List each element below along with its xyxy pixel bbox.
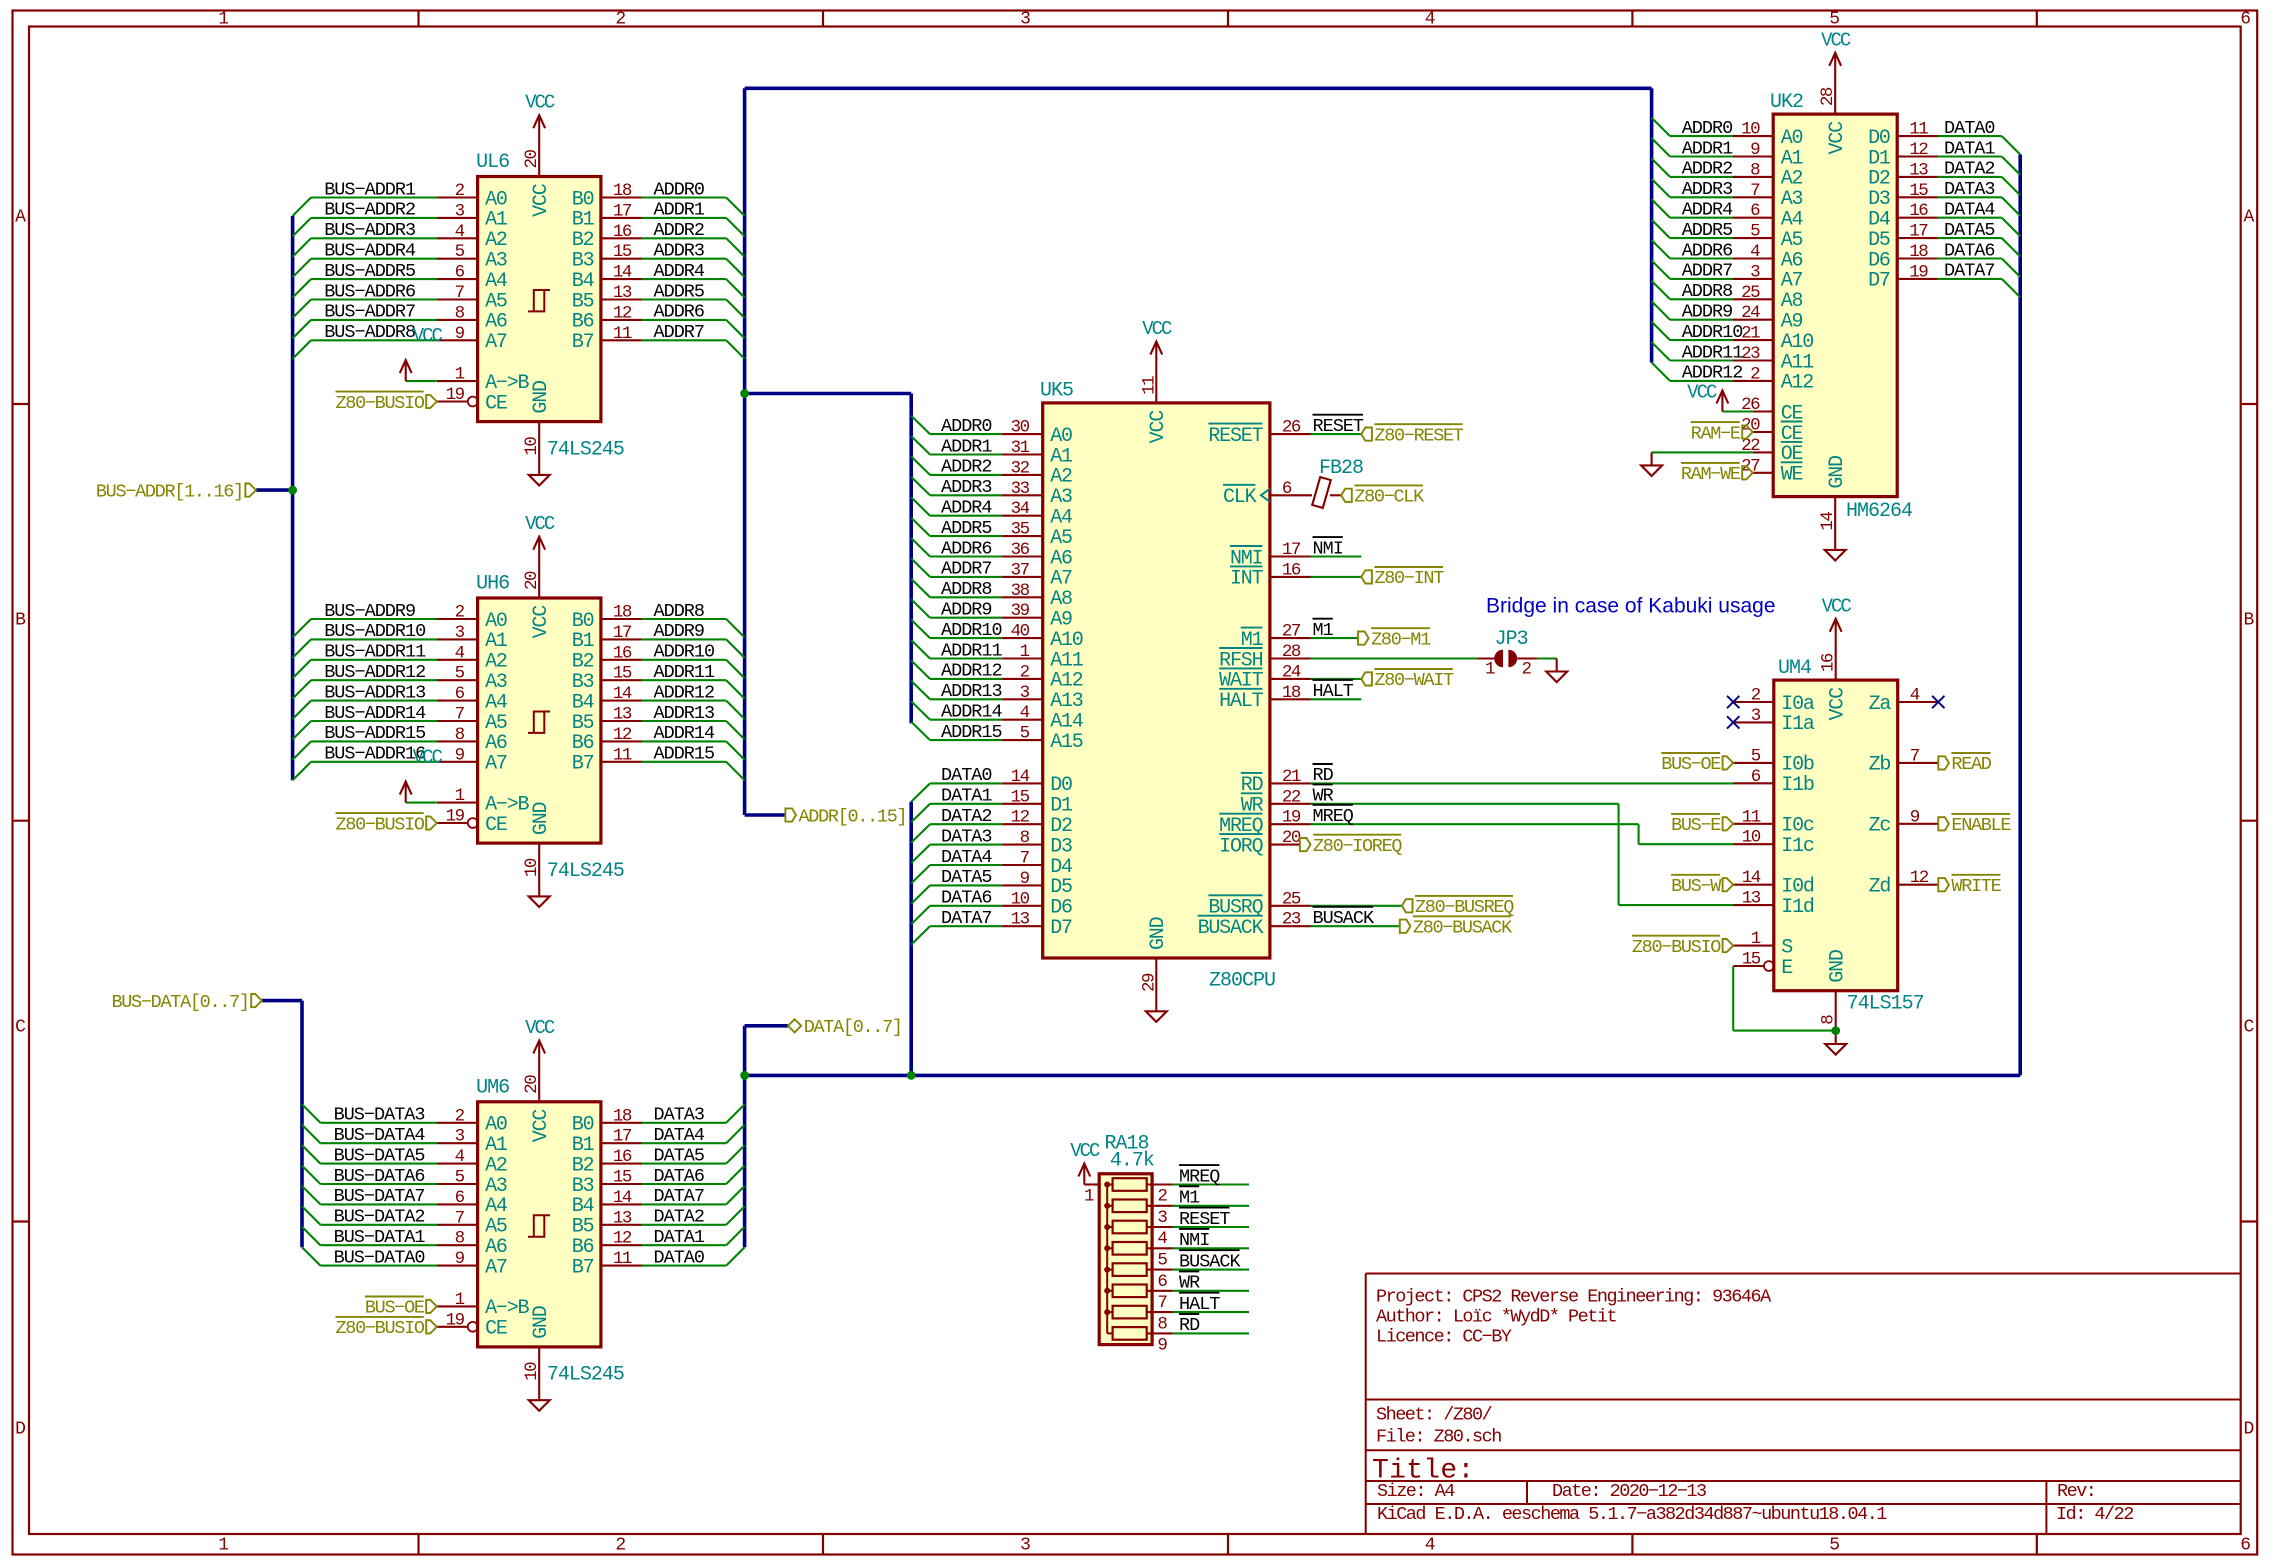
svg-text:7: 7 <box>455 705 465 725</box>
wire DATA7 from UK2 <box>1938 278 2002 280</box>
svg-text:28: 28 <box>1818 87 1838 106</box>
RA18 pin 7 wire WR <box>1147 1290 1173 1292</box>
svg-text:Bridge in case of Kabuki usage: Bridge in case of Kabuki usage <box>1486 595 1776 618</box>
svg-text:File: Z80.sch: File: Z80.sch <box>1376 1427 1501 1448</box>
svg-text:DATA4: DATA4 <box>941 847 992 868</box>
svg-text:ADDR5: ADDR5 <box>654 281 705 302</box>
UK5 pin 17 NMI <box>1270 555 1311 557</box>
svg-text:RESET: RESET <box>1208 425 1263 448</box>
UM6 pin 6 A4 <box>437 1203 478 1205</box>
wire BUS-DATA1 <box>320 1244 437 1246</box>
bus entry DATA[0..7] <box>745 1024 788 1028</box>
svg-text:12: 12 <box>613 1229 632 1249</box>
svg-text:12: 12 <box>1909 140 1928 160</box>
svg-text:14: 14 <box>613 684 632 704</box>
UL6 pin 14 B4 <box>601 278 642 280</box>
svg-text:A7: A7 <box>485 753 507 776</box>
wire NMI <box>1311 555 1362 557</box>
svg-text:16: 16 <box>613 222 632 242</box>
svg-text:5: 5 <box>1750 222 1760 242</box>
svg-text:ADDR[0..15]: ADDR[0..15] <box>799 806 907 827</box>
svg-text:ADDR7: ADDR7 <box>1682 261 1733 282</box>
svg-text:ENABLE: ENABLE <box>1951 815 2011 836</box>
svg-text:CLK: CLK <box>1223 486 1257 509</box>
wire BUS-ADDR2 <box>311 217 437 219</box>
svg-text:BUS−ADDR4: BUS−ADDR4 <box>324 241 416 262</box>
svg-text:GND: GND <box>1147 917 1170 950</box>
svg-text:ADDR3: ADDR3 <box>654 241 705 262</box>
svg-text:UM6: UM6 <box>476 1076 509 1099</box>
UM6 pin 15 B3 <box>601 1183 642 1185</box>
UK5 pin 40 A10 <box>1002 637 1043 639</box>
hier label BUS-OE at UM4 I0b <box>1723 756 1734 769</box>
hier label Z80-CLK <box>1341 489 1352 502</box>
RA18 resistor R2 M1 <box>1113 1200 1147 1213</box>
UK5 pin 38 A8 <box>1002 596 1043 598</box>
UL6 pin 18 B0 <box>601 196 642 198</box>
wire ADDR0 to UK2 <box>1670 135 1733 137</box>
svg-text:Z80CPU: Z80CPU <box>1209 970 1275 993</box>
wire DATA5 to UK5 <box>930 884 1002 886</box>
svg-text:21: 21 <box>1282 767 1301 787</box>
UH6 pin 19 CE <box>437 822 468 824</box>
wire RESET / hier Z80-RESET <box>1311 433 1362 435</box>
wire BUS-ADDR16 <box>311 761 437 763</box>
hier label WRITE at UM4 Zd <box>1938 878 1949 891</box>
UL6 pin 2 A0 <box>437 196 478 198</box>
svg-text:DATA7: DATA7 <box>654 1186 705 1207</box>
svg-text:D: D <box>15 1419 26 1439</box>
wire BUS-ADDR3 <box>311 237 437 239</box>
svg-text:29: 29 <box>1139 973 1159 992</box>
svg-text:13: 13 <box>1742 889 1761 909</box>
svg-text:ADDR1: ADDR1 <box>941 436 992 457</box>
UH6 pin 11 B7 <box>601 761 642 763</box>
svg-text:BUS−DATA6: BUS−DATA6 <box>334 1166 425 1187</box>
wire BUS-ADDR15 <box>311 740 437 742</box>
svg-text:DATA1: DATA1 <box>654 1227 705 1248</box>
hier label Z80-BUSIO at UM4 S <box>1723 939 1734 952</box>
UM4 pin 3 I1a <box>1733 721 1774 723</box>
svg-text:1: 1 <box>1485 660 1495 680</box>
svg-text:74LS157: 74LS157 <box>1847 993 1924 1016</box>
UK2 pin 8 A2 <box>1733 176 1774 178</box>
UK5 pin 16 INT <box>1270 576 1311 578</box>
UL6 pin 9 A7 <box>437 339 478 341</box>
svg-text:2: 2 <box>1751 686 1761 706</box>
svg-text:4: 4 <box>1020 703 1030 723</box>
svg-text:BUS−DATA1: BUS−DATA1 <box>334 1227 426 1248</box>
svg-text:ADDR10: ADDR10 <box>654 642 715 663</box>
junction on V1 at BUS-ADDR label <box>288 486 297 495</box>
wire ADDR2 to UK5 <box>930 474 1002 476</box>
svg-text:5: 5 <box>455 664 465 684</box>
UH6 pin 5 A3 <box>437 679 478 681</box>
UK5 pin 30 A0 <box>1002 433 1043 435</box>
svg-text:DATA0: DATA0 <box>1944 118 1995 139</box>
svg-text:3: 3 <box>1157 1208 1167 1228</box>
svg-text:ADDR4: ADDR4 <box>1682 200 1733 221</box>
svg-text:UH6: UH6 <box>476 573 509 596</box>
svg-text:ADDR1: ADDR1 <box>654 200 705 221</box>
svg-text:DATA0: DATA0 <box>654 1247 705 1268</box>
UK5 pin 36 A6 <box>1002 555 1043 557</box>
svg-text:WE: WE <box>1781 464 1803 487</box>
UK2 pin 4 A6 <box>1733 257 1774 259</box>
svg-text:23: 23 <box>1741 344 1760 364</box>
svg-text:DATA3: DATA3 <box>941 826 992 847</box>
svg-text:Z80−RESET: Z80−RESET <box>1374 425 1463 446</box>
wire BUS-ADDR9 <box>311 618 437 620</box>
UK2 pin 10 A0 <box>1733 135 1774 137</box>
UK2 pin 12 D1 <box>1897 155 1938 157</box>
wire ADDR4 to UK5 <box>930 515 1002 517</box>
wire BUS-DATA3 <box>320 1122 437 1124</box>
svg-text:14: 14 <box>613 1188 632 1208</box>
svg-text:2: 2 <box>455 1106 465 1126</box>
wire DATA0 to UK5 <box>930 782 1002 784</box>
svg-text:VCC: VCC <box>525 1017 555 1039</box>
svg-text:DATA1: DATA1 <box>1944 138 1995 159</box>
UK2 pin 25 A8 <box>1733 298 1774 300</box>
UK5 pin 39 A9 <box>1002 617 1043 619</box>
svg-text:VCC: VCC <box>1822 595 1852 617</box>
wire DATA6 from UK2 <box>1938 257 2002 259</box>
svg-text:BUS−ADDR11: BUS−ADDR11 <box>324 642 426 663</box>
UK2 pin 13 D2 <box>1897 176 1938 178</box>
svg-text:ADDR0: ADDR0 <box>1682 118 1733 139</box>
svg-text:16: 16 <box>613 1147 632 1167</box>
UK5 pin 25 BUSRQ <box>1270 905 1311 907</box>
svg-text:ADDR12: ADDR12 <box>941 661 1002 682</box>
svg-text:RESET: RESET <box>1179 1209 1230 1230</box>
svg-text:A7: A7 <box>485 331 507 354</box>
UM6 pin 18 B0 <box>601 1122 642 1124</box>
UM4 pin 15 E <box>1733 965 1764 967</box>
svg-text:Project: CPS2 Reverse Engineer: Project: CPS2 Reverse Engineering: 93646… <box>1376 1287 1772 1308</box>
svg-text:ADDR6: ADDR6 <box>941 538 992 559</box>
svg-text:ADDR13: ADDR13 <box>941 681 1002 702</box>
svg-text:Sheet: /Z80/: Sheet: /Z80/ <box>1376 1405 1493 1426</box>
UM6 pin 13 B5 <box>601 1224 642 1226</box>
svg-text:Z80−BUSIO: Z80−BUSIO <box>335 1318 424 1339</box>
wire BUS-DATA2 <box>320 1224 437 1226</box>
svg-text:5: 5 <box>1829 10 1840 30</box>
bus ADDR vertical V2 right of UL6/UH6 <box>743 88 747 815</box>
UK5 pin 8 D3 <box>1002 844 1043 846</box>
svg-text:VCC: VCC <box>530 1109 553 1143</box>
wire OE to GND <box>1652 451 1753 453</box>
wire ADDR15 to UK5 <box>930 739 1002 741</box>
svg-text:C: C <box>2243 1018 2254 1038</box>
svg-text:5: 5 <box>455 242 465 262</box>
UK2 pin 20 CE <box>1753 431 1773 433</box>
svg-text:DATA7: DATA7 <box>941 908 992 929</box>
svg-text:15: 15 <box>613 1168 632 1188</box>
svg-text:10: 10 <box>1742 828 1761 848</box>
svg-text:BUS−DATA2: BUS−DATA2 <box>334 1207 425 1228</box>
svg-text:NMI: NMI <box>1313 538 1343 559</box>
wire DATA5 from UK2 <box>1938 237 2002 239</box>
svg-text:DATA7: DATA7 <box>1944 261 1995 282</box>
wire RD to UM4 I1b <box>1311 782 1734 784</box>
UK5 pin 31 A1 <box>1002 453 1043 455</box>
svg-text:VCC: VCC <box>413 747 443 769</box>
UL6 pin 3 A1 <box>437 217 478 219</box>
svg-text:13: 13 <box>613 1208 632 1228</box>
svg-text:6: 6 <box>2240 1536 2251 1556</box>
svg-text:Rev:: Rev: <box>2057 1481 2105 1502</box>
wire ADDR10 to UK5 <box>930 637 1002 639</box>
svg-text:C: C <box>15 1018 26 1038</box>
junction V4/H2 <box>907 1071 916 1080</box>
svg-text:A7: A7 <box>485 1256 507 1279</box>
UM6 pin 5 A3 <box>437 1183 478 1185</box>
svg-text:Z80−BUSIO: Z80−BUSIO <box>335 814 424 835</box>
UK2 pin 2 A12 <box>1733 380 1774 382</box>
svg-text:1: 1 <box>1084 1187 1094 1207</box>
bus entry BUS-DATA[0..7] <box>262 999 302 1003</box>
svg-text:Author: Loïc *WydD* Petit: Author: Loïc *WydD* Petit <box>1376 1307 1616 1328</box>
svg-text:Z80−M1: Z80−M1 <box>1371 629 1431 650</box>
svg-text:ADDR1: ADDR1 <box>1682 138 1733 159</box>
svg-text:9: 9 <box>455 745 465 765</box>
svg-text:3: 3 <box>1020 1536 1031 1556</box>
junction V2/H3 <box>740 389 749 398</box>
svg-text:ADDR3: ADDR3 <box>1682 179 1733 200</box>
svg-text:BUS−ADDR9: BUS−ADDR9 <box>324 601 415 622</box>
svg-text:20: 20 <box>522 571 542 590</box>
UK5 pin 10 D6 <box>1002 905 1043 907</box>
wire ADDR3 <box>642 258 727 260</box>
wire ADDR5 to UK5 <box>930 535 1002 537</box>
svg-text:VCC: VCC <box>1070 1140 1100 1162</box>
svg-text:12: 12 <box>613 725 632 745</box>
wire BUS-ADDR1 <box>311 196 437 198</box>
svg-text:16: 16 <box>1819 653 1839 672</box>
svg-text:ADDR7: ADDR7 <box>654 322 705 343</box>
svg-text:7: 7 <box>1157 1293 1167 1313</box>
wire BUSACK / hier Z80-BUSACK <box>1311 925 1400 927</box>
UM6 pin 1 A->B <box>437 1305 478 1307</box>
wire BUS-ADDR12 <box>311 679 437 681</box>
svg-text:6: 6 <box>1157 1272 1167 1292</box>
svg-text:18: 18 <box>613 603 632 623</box>
svg-text:15: 15 <box>1742 950 1761 970</box>
UK5 pin 3 A13 <box>1002 698 1043 700</box>
svg-text:VCC: VCC <box>525 92 555 114</box>
svg-text:D: D <box>2243 1419 2254 1439</box>
svg-text:32: 32 <box>1011 458 1030 478</box>
svg-text:RD: RD <box>1313 765 1334 786</box>
svg-text:GND: GND <box>1827 950 1850 983</box>
UH6 pin 14 B4 <box>601 700 642 702</box>
svg-text:14: 14 <box>1742 868 1761 888</box>
wire ADDR2 <box>642 237 727 239</box>
UM4 pin 2 I0a <box>1733 701 1774 703</box>
svg-text:BUS−DATA4: BUS−DATA4 <box>334 1125 426 1146</box>
svg-text:CE: CE <box>485 1318 507 1341</box>
svg-text:ADDR4: ADDR4 <box>941 498 992 519</box>
wire ADDR9 to UK2 <box>1670 319 1733 321</box>
svg-text:8: 8 <box>455 303 465 323</box>
svg-text:ADDR6: ADDR6 <box>654 302 705 323</box>
svg-text:ADDR9: ADDR9 <box>654 621 705 642</box>
UK2 pin 21 A10 <box>1733 339 1774 341</box>
UK5 pin 13 D7 <box>1002 925 1043 927</box>
svg-text:20: 20 <box>522 149 542 168</box>
svg-text:4: 4 <box>1425 10 1436 30</box>
wire ADDR7 to UK5 <box>930 576 1002 578</box>
svg-text:BUS−ADDR8: BUS−ADDR8 <box>324 322 415 343</box>
UM6 pin 12 B6 <box>601 1244 642 1246</box>
svg-text:18: 18 <box>1282 683 1301 703</box>
wire INT / hier Z80-INT <box>1311 576 1362 578</box>
title block <box>1365 1274 1367 1535</box>
UK2 pin 17 D5 <box>1897 237 1938 239</box>
svg-text:BUS−DATA0: BUS−DATA0 <box>334 1247 425 1268</box>
hier label BUS-E at UM4 I0c <box>1723 817 1734 830</box>
svg-text:9: 9 <box>1910 807 1920 827</box>
svg-text:UK5: UK5 <box>1040 380 1073 403</box>
UK2 pin 3 A7 <box>1733 278 1774 280</box>
svg-text:3: 3 <box>1020 10 1031 30</box>
svg-text:24: 24 <box>1282 662 1301 682</box>
UM4 pin 4 Za <box>1898 701 1939 703</box>
svg-text:1: 1 <box>218 1536 229 1556</box>
svg-text:BUS−ADDR[1..16]: BUS−ADDR[1..16] <box>96 481 243 502</box>
hier label ENABLE at UM4 Zc <box>1938 817 1949 830</box>
UH6 pin 15 B3 <box>601 679 642 681</box>
svg-text:CE: CE <box>485 814 507 837</box>
svg-text:BUS−ADDR16: BUS−ADDR16 <box>324 744 425 765</box>
wire ADDR13 to UK5 <box>930 698 1002 700</box>
wire BUS-ADDR6 <box>311 298 437 300</box>
svg-text:6: 6 <box>1751 767 1761 787</box>
svg-text:ADDR5: ADDR5 <box>1682 220 1733 241</box>
svg-text:10: 10 <box>522 858 542 877</box>
UK2 pin 7 A3 <box>1733 196 1774 198</box>
UH6 pin 1 A->B <box>437 802 478 804</box>
wire ADDR5 <box>642 298 727 300</box>
hier label BUS-OE at UM6 pin1 <box>426 1300 437 1313</box>
wire DATA2 from UK2 <box>1938 176 2002 178</box>
svg-text:Zd: Zd <box>1869 876 1891 899</box>
bus V3 left of UK5 (ADDR) <box>909 394 913 724</box>
svg-text:MREQ: MREQ <box>1313 806 1354 827</box>
wire ADDR15 <box>642 761 727 763</box>
bus V6 left of UK2 <box>1650 88 1654 362</box>
UK5 pin 14 D0 <box>1002 782 1043 784</box>
wire BUS-DATA4 <box>320 1142 437 1144</box>
IC UM4 74LS157 body <box>1774 680 1898 991</box>
svg-text:BUS−ADDR14: BUS−ADDR14 <box>324 703 426 724</box>
UK5 pin 26 RESET <box>1270 433 1311 435</box>
svg-text:3: 3 <box>455 623 465 643</box>
svg-text:10: 10 <box>522 1362 542 1381</box>
svg-text:DATA1: DATA1 <box>941 786 992 807</box>
wire BUS-DATA6 <box>320 1183 437 1185</box>
svg-text:GND: GND <box>530 1306 553 1339</box>
svg-text:17: 17 <box>613 201 632 221</box>
svg-text:4: 4 <box>455 643 465 663</box>
svg-text:HALT: HALT <box>1179 1294 1220 1315</box>
svg-text:A15: A15 <box>1050 731 1083 754</box>
wire DATA3 to UK5 <box>930 844 1002 846</box>
wire BUS-ADDR10 <box>311 638 437 640</box>
svg-text:7: 7 <box>455 283 465 303</box>
svg-text:WR: WR <box>1179 1273 1200 1294</box>
RA18 resistor R6 WR <box>1113 1285 1147 1298</box>
svg-text:25: 25 <box>1282 889 1301 909</box>
UK5 pin 7 D4 <box>1002 864 1043 866</box>
svg-text:DATA6: DATA6 <box>654 1166 705 1187</box>
svg-text:ADDR10: ADDR10 <box>941 620 1002 641</box>
resistor array RA18 4.7k body <box>1099 1174 1152 1345</box>
RA18 resistor R5 BUSACK <box>1113 1263 1147 1276</box>
svg-text:15: 15 <box>1011 787 1030 807</box>
wire BUS-ADDR7 <box>311 319 437 321</box>
svg-text:BUS−ADDR5: BUS−ADDR5 <box>324 261 415 282</box>
svg-text:8: 8 <box>1750 160 1760 180</box>
wire BUS-DATA0 <box>320 1265 437 1267</box>
UK2 pin 5 A5 <box>1733 237 1774 239</box>
UH6 pin 8 A6 <box>437 740 478 742</box>
UM6 pin 14 B4 <box>601 1203 642 1205</box>
svg-text:1: 1 <box>455 365 465 385</box>
svg-text:13: 13 <box>613 283 632 303</box>
wire BUS-ADDR13 <box>311 700 437 702</box>
no-connect Za <box>1932 696 1944 708</box>
svg-text:B7: B7 <box>572 331 594 354</box>
hier label Z80-BUSIO at UH6 CE <box>426 816 437 829</box>
svg-text:8: 8 <box>1819 1015 1839 1025</box>
wire DATA7 <box>642 1203 727 1205</box>
wire ADDR11 to UK2 <box>1670 359 1733 361</box>
jumper JP3 <box>1477 657 1494 659</box>
svg-text:2: 2 <box>1522 660 1532 680</box>
UM4 pin 5 I0b <box>1733 762 1774 764</box>
svg-text:BUS−ADDR3: BUS−ADDR3 <box>324 220 415 241</box>
svg-text:ADDR2: ADDR2 <box>1682 159 1733 180</box>
svg-text:2: 2 <box>615 1536 626 1556</box>
svg-text:ADDR14: ADDR14 <box>654 723 716 744</box>
svg-text:D7: D7 <box>1050 917 1072 940</box>
svg-text:74LS245: 74LS245 <box>547 438 624 461</box>
svg-text:DATA5: DATA5 <box>654 1145 705 1166</box>
wire DATA4 to UK5 <box>930 864 1002 866</box>
svg-text:11: 11 <box>1139 376 1159 395</box>
bus V7 right of UK2 (DATA) <box>2018 155 2022 1076</box>
UH6 pin 18 B0 <box>601 618 642 620</box>
wire DATA4 <box>642 1142 727 1144</box>
UL6 pin 8 A6 <box>437 319 478 321</box>
svg-text:5: 5 <box>455 1168 465 1188</box>
svg-text:DATA6: DATA6 <box>941 888 992 909</box>
UK2 pin 11 D0 <box>1897 135 1938 137</box>
RA18 pin 4 wire RESET <box>1147 1226 1173 1228</box>
svg-text:34: 34 <box>1011 499 1030 519</box>
svg-text:READ: READ <box>1951 754 1991 775</box>
svg-text:3: 3 <box>1751 706 1761 726</box>
svg-text:4: 4 <box>455 1147 465 1167</box>
svg-text:7: 7 <box>1750 181 1760 201</box>
RA18 pin 3 wire M1 <box>1147 1205 1173 1207</box>
svg-text:DATA0: DATA0 <box>941 765 992 786</box>
UK5 pin 18 HALT <box>1270 698 1311 700</box>
hier label READ at UM4 Zb <box>1938 756 1949 769</box>
UK2 pin 26 CE <box>1753 410 1773 412</box>
